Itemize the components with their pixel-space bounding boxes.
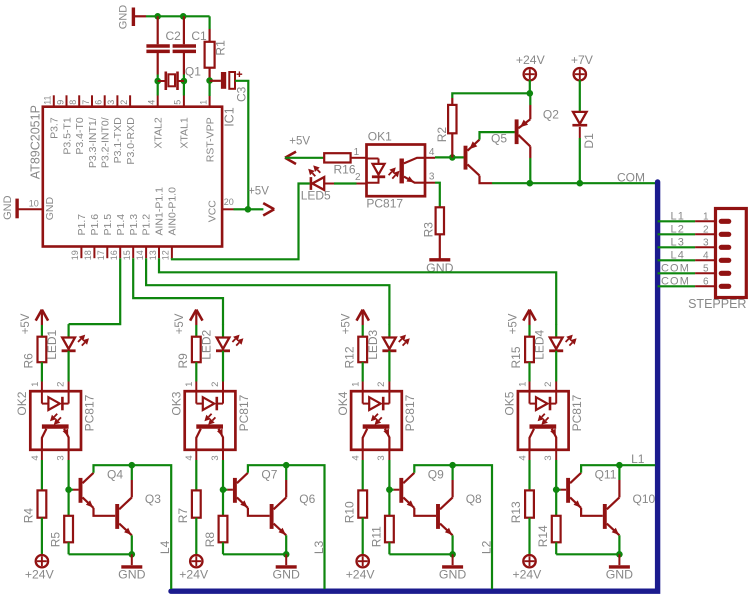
svg-text:+5V: +5V — [341, 313, 353, 334]
svg-text:+24V: +24V — [25, 568, 55, 582]
wire OK1 pin4 to Q5 base — [425, 157, 435, 159]
svg-text:OK2: OK2 — [15, 391, 29, 415]
svg-text:RST-VPP: RST-VPP — [204, 117, 216, 162]
supply +24V (R13) — [523, 555, 535, 567]
svg-text:+5V: +5V — [20, 313, 32, 334]
wire bus to STEPPER pin 3 (L3) — [658, 246, 696, 248]
connector pin 2 — [695, 233, 715, 235]
resistor R14 — [552, 516, 561, 543]
svg-text:LED1: LED1 — [45, 329, 59, 359]
wire OK4 pin4 to R10 — [362, 450, 364, 460]
node junction R2/Q5 base — [449, 154, 456, 161]
OK2 internal LED — [41, 391, 43, 403]
transistor Q3 (NPN) — [115, 504, 119, 529]
optocoupler OK1 PC817 box — [367, 145, 426, 197]
svg-text:1: 1 — [184, 382, 195, 387]
pin 11 stub (top) — [53, 95, 55, 106]
node junction Q2 collector on COM — [527, 180, 534, 187]
supply +5V arrow (R9) — [190, 310, 196, 321]
svg-text:R12: R12 — [342, 346, 356, 368]
svg-text:OK1: OK1 — [368, 129, 392, 143]
OK2 internal phototransistor — [42, 424, 69, 428]
node junction Q11 base — [553, 486, 560, 493]
wire OK4 pin3 to R11 and Q9 base — [388, 450, 390, 460]
svg-text:4: 4 — [429, 147, 435, 158]
svg-text:3: 3 — [210, 455, 221, 460]
OK5 internal LED — [529, 391, 531, 403]
svg-text:3: 3 — [55, 455, 66, 460]
resistor R10 — [358, 490, 367, 517]
resistor R12 — [358, 337, 367, 363]
resistor R5 — [64, 516, 73, 543]
optocoupler OK4 PC817 box — [351, 391, 402, 450]
optocoupler OK3 PC817 box — [185, 391, 236, 450]
OK4 internal LED — [362, 391, 364, 403]
svg-text:+5V: +5V — [174, 313, 186, 334]
svg-text:XTAL2: XTAL2 — [153, 117, 165, 148]
svg-text:6: 6 — [703, 276, 709, 287]
svg-text:14: 14 — [135, 250, 145, 260]
svg-text:R1: R1 — [214, 40, 228, 56]
svg-text:3: 3 — [543, 455, 554, 460]
svg-text:P1.5: P1.5 — [102, 214, 114, 236]
wire Q3 emitter to GND — [131, 535, 133, 554]
wire OK3 pin3 to R8 and Q7 base — [222, 450, 224, 460]
node junction C1 top — [180, 13, 187, 20]
svg-text:Q4: Q4 — [107, 468, 123, 482]
supply +5V arrow (VCC) — [248, 208, 264, 210]
wire Q7 collector to output junction — [248, 465, 286, 473]
svg-text:R16: R16 — [334, 162, 356, 176]
resistor R2 — [451, 133, 453, 157]
svg-text:Q6: Q6 — [299, 492, 315, 506]
svg-text:AT89C2051P: AT89C2051P — [29, 105, 43, 179]
pin 14 stub (bottom) — [145, 247, 147, 259]
wire OK5 pin3 to R14 and Q11 base — [555, 450, 557, 460]
optocoupler OK2 PC817 box — [30, 391, 81, 450]
wire Q11 collector to output junction — [581, 465, 619, 473]
pin 19 stub (bottom) — [80, 247, 82, 259]
node junction emitter/GND — [129, 551, 136, 558]
svg-text:R4: R4 — [22, 508, 36, 524]
wire AIN1 pin13 to LED4 — [159, 258, 556, 324]
svg-text:GND: GND — [44, 197, 56, 221]
wire Q4 emitter to Q3 base — [94, 508, 116, 516]
pin 10 GND stub (left) — [18, 208, 43, 210]
svg-text:R8: R8 — [203, 532, 217, 548]
svg-text:P1.4: P1.4 — [115, 214, 127, 236]
svg-text:P3.7: P3.7 — [49, 117, 61, 139]
svg-text:LED2: LED2 — [199, 329, 213, 359]
svg-text:4: 4 — [30, 455, 41, 460]
OK5 light arrows — [542, 414, 545, 417]
svg-text:1: 1 — [30, 382, 41, 387]
wire RST pin1 — [209, 81, 211, 96]
diode D1 — [579, 80, 581, 112]
node junction output L1 — [616, 462, 623, 469]
transistor Q10 (NPN) — [603, 504, 607, 529]
node junction output L3 — [283, 462, 290, 469]
svg-text:Q5: Q5 — [491, 132, 507, 146]
svg-text:12: 12 — [161, 250, 171, 260]
LED LED1 — [67, 324, 69, 337]
svg-text:19: 19 — [70, 250, 80, 260]
svg-text:PC817: PC817 — [570, 394, 584, 431]
OK3 internal LED — [195, 391, 197, 403]
svg-text:PC817: PC817 — [366, 197, 403, 211]
svg-text:5: 5 — [703, 263, 709, 274]
wire OK5 pin4 to R13 — [529, 450, 531, 460]
svg-text:2: 2 — [355, 172, 361, 183]
pin 8 stub (top) — [78, 95, 80, 106]
connector pin 4 — [695, 259, 715, 261]
wire R5 to GND rail — [69, 553, 132, 555]
resistor R7 — [192, 490, 201, 517]
wire AIN0 pin12 to LED5 — [171, 258, 173, 259]
resistor R3 — [436, 207, 444, 234]
wire net L1 to bus — [619, 464, 655, 466]
svg-text:1: 1 — [517, 382, 528, 387]
LED LED4 — [555, 324, 557, 337]
svg-text:4: 4 — [351, 455, 362, 460]
node junction emitter/GND — [449, 551, 456, 558]
svg-text:PC817: PC817 — [237, 394, 251, 431]
svg-text:COM: COM — [661, 276, 690, 288]
svg-text:R15: R15 — [509, 346, 523, 368]
svg-text:Q1: Q1 — [185, 65, 201, 79]
transistor Q2 (PNP) — [515, 119, 519, 144]
wire Q6 emitter to GND — [285, 535, 287, 554]
svg-text:PC817: PC817 — [82, 394, 96, 431]
wire Q5 emitter to Q2 base — [480, 132, 515, 140]
svg-text:+24V: +24V — [346, 568, 376, 582]
svg-text:15: 15 — [122, 250, 132, 260]
svg-text:C2: C2 — [166, 29, 182, 43]
ground GND (Q6) — [276, 565, 297, 568]
OK1 internal phototransistor — [400, 159, 404, 184]
wire net L4 to bus — [132, 465, 171, 589]
svg-text:P1.6: P1.6 — [89, 214, 101, 236]
supply +5V arrow (OK1 input) — [285, 152, 296, 158]
wire OK2 pin3 to R5 and Q4 base — [68, 450, 70, 460]
wire bus to STEPPER pin 5 (COM) — [658, 272, 696, 274]
node junction emitter/GND — [616, 551, 623, 558]
wire COM net — [529, 182, 656, 184]
svg-text:R10: R10 — [342, 501, 356, 523]
wire R2 top to +24V rail — [452, 93, 530, 98]
svg-text:4: 4 — [184, 455, 195, 460]
svg-text:1: 1 — [703, 211, 709, 222]
connector pin 6 — [695, 285, 715, 287]
svg-text:L4: L4 — [671, 250, 685, 262]
LED LED5 — [310, 177, 313, 190]
wire Q7 emitter to Q6 base — [248, 508, 270, 516]
svg-text:Q9: Q9 — [428, 468, 444, 482]
svg-text:LED4: LED4 — [533, 329, 547, 359]
svg-text:P3.4-T0: P3.4-T0 — [74, 117, 86, 155]
svg-text:Q2: Q2 — [543, 108, 559, 122]
pin 2 stub (top) — [129, 95, 131, 106]
OK2 light arrows — [54, 414, 57, 417]
svg-text:R13: R13 — [509, 501, 523, 523]
resistor R16 — [324, 153, 350, 162]
svg-text:Q10: Q10 — [633, 492, 656, 506]
wire P1.3 pin15 to LED2 — [133, 258, 223, 324]
svg-text:R3: R3 — [421, 222, 435, 238]
svg-text:7: 7 — [81, 100, 91, 105]
supply +24V (Q2) — [524, 68, 536, 80]
node junction Q4 base — [65, 486, 72, 493]
connector STEPPER box — [716, 209, 747, 298]
transistor Q8 (NPN) — [436, 504, 440, 529]
resistor R13 — [525, 490, 534, 517]
svg-text:GND: GND — [606, 568, 633, 582]
node junction output L4 — [129, 462, 136, 469]
ground GND (top left) — [132, 8, 135, 27]
connector pin 5 — [695, 272, 715, 274]
capacitor C3 (electrolytic) — [210, 80, 221, 82]
svg-text:L3: L3 — [312, 540, 326, 554]
svg-text:17: 17 — [96, 250, 106, 260]
svg-text:3: 3 — [429, 171, 435, 182]
pin 3 stub (top) — [116, 95, 118, 106]
LED LED3 — [388, 324, 390, 337]
pin 6 stub (top) — [104, 95, 106, 106]
transistor Q9 (NPN) — [389, 489, 393, 491]
svg-text:PC817: PC817 — [403, 394, 417, 431]
supply +5V arrow (R6) — [36, 310, 42, 321]
svg-text:1: 1 — [354, 147, 360, 158]
ground GND (Q8) — [442, 565, 463, 568]
svg-text:4: 4 — [703, 250, 709, 261]
pin 1 stub RST — [209, 96, 211, 107]
svg-text:20: 20 — [224, 197, 234, 207]
supply +24V (R10) — [357, 555, 369, 567]
node junction R1 bottom / RST — [206, 77, 213, 84]
svg-text:R14: R14 — [536, 525, 550, 547]
supply +5V arrow (R12) — [357, 310, 363, 321]
svg-text:P3.3-INT1/: P3.3-INT1/ — [87, 117, 99, 168]
wire R8 to GND rail — [223, 553, 286, 555]
resistor R1 — [209, 16, 211, 29]
wire Q4 collector to output junction — [94, 465, 132, 473]
wire bus to STEPPER pin 4 (L4) — [658, 259, 696, 261]
svg-text:2: 2 — [543, 382, 554, 387]
svg-text:R7: R7 — [176, 508, 190, 524]
svg-text:P3.0-RXD: P3.0-RXD — [125, 117, 137, 165]
svg-text:8: 8 — [68, 100, 78, 105]
svg-text:AIN0-P1.0: AIN0-P1.0 — [167, 187, 179, 236]
wire Q10 emitter to GND — [618, 535, 620, 554]
supply +7V — [574, 68, 586, 80]
svg-text:OK3: OK3 — [169, 391, 183, 415]
transistor Q7 (NPN) — [223, 489, 227, 491]
transistor Q4 (NPN) — [69, 489, 73, 491]
svg-text:P3.1-TXD: P3.1-TXD — [112, 117, 124, 164]
svg-text:4: 4 — [147, 100, 157, 105]
svg-text:R9: R9 — [176, 353, 190, 369]
svg-text:+5V: +5V — [507, 313, 519, 334]
svg-text:3: 3 — [376, 455, 387, 460]
svg-text:R6: R6 — [22, 353, 36, 369]
wire OK2 pin4 to R4 — [41, 450, 43, 460]
ground GND (pin10) — [15, 199, 18, 219]
transistor Q6 (NPN) — [270, 504, 274, 529]
pin 9 stub (top) — [66, 95, 68, 106]
wire Q11 emitter to Q10 base — [581, 508, 603, 516]
wire Q10 collector — [618, 480, 620, 497]
wire Q5 collector to COM — [480, 176, 493, 184]
wire Q9 emitter to Q8 base — [414, 508, 436, 516]
svg-text:C3: C3 — [234, 86, 248, 102]
svg-text:GND: GND — [439, 568, 466, 582]
svg-text:6: 6 — [94, 100, 104, 105]
svg-text:GND: GND — [2, 195, 14, 220]
node junction D1 on COM — [577, 180, 584, 187]
OK4 light arrows — [375, 414, 378, 417]
ground GND (Q10) — [609, 565, 630, 568]
svg-text:+24V: +24V — [513, 568, 543, 582]
OK1 internal LED — [367, 158, 379, 160]
wire OK1 pin3 to R3 — [425, 182, 435, 184]
svg-text:2: 2 — [376, 382, 387, 387]
wire Q9 collector to output junction — [414, 465, 452, 473]
svg-text:16: 16 — [109, 250, 119, 260]
svg-text:Q3: Q3 — [145, 492, 161, 506]
svg-text:COM: COM — [617, 170, 645, 184]
node junction +24V / Q2 emitter — [527, 90, 534, 97]
svg-text:STEPPER: STEPPER — [688, 297, 746, 311]
svg-text:4: 4 — [517, 455, 528, 460]
pin 4 stub XTAL2 — [157, 96, 159, 107]
wire R14 to GND rail — [556, 553, 619, 555]
transistor Q11 (NPN) — [556, 489, 560, 491]
svg-text:9: 9 — [55, 100, 65, 105]
supply +24V (R4) — [36, 555, 48, 567]
svg-text:13: 13 — [148, 250, 158, 260]
capacitor C1 — [183, 16, 185, 44]
svg-text:1: 1 — [198, 100, 208, 105]
pin 17 stub (bottom) — [106, 247, 108, 259]
svg-text:R11: R11 — [369, 526, 383, 547]
svg-text:+24V: +24V — [179, 568, 209, 582]
bus B$1 (navy) — [171, 182, 658, 591]
resistor R9 — [192, 337, 201, 363]
svg-text:3: 3 — [106, 100, 116, 105]
wire GND to C2 C1 R1 top — [146, 15, 210, 17]
svg-text:3: 3 — [703, 237, 709, 248]
svg-text:2: 2 — [55, 382, 66, 387]
LED LED2 — [222, 324, 224, 337]
ground GND (Q3) — [121, 565, 142, 568]
svg-text:R2: R2 — [435, 127, 449, 143]
svg-text:XTAL1: XTAL1 — [179, 117, 191, 148]
svg-text:LED3: LED3 — [366, 329, 380, 359]
svg-text:2: 2 — [703, 224, 709, 235]
wire Q8 emitter to GND — [452, 535, 454, 554]
OK3 internal phototransistor — [196, 424, 223, 428]
svg-text:10: 10 — [29, 199, 39, 209]
resistor R15 — [525, 337, 534, 363]
OK1 light arrows — [389, 172, 392, 175]
svg-text:Q7: Q7 — [261, 468, 277, 482]
svg-text:P3.5-T1: P3.5-T1 — [61, 117, 73, 155]
wire net L2 to bus — [453, 465, 492, 589]
wire Q6 collector — [285, 480, 287, 497]
wire Q8 collector — [452, 480, 454, 497]
svg-text:Q8: Q8 — [466, 492, 482, 506]
resistor R6 — [38, 337, 47, 363]
OK5 internal phototransistor — [530, 424, 557, 428]
wire C3 to VCC +5V — [235, 81, 248, 210]
pin 12 stub (bottom) — [171, 247, 173, 259]
wire OK3 pin4 to R7 — [195, 450, 197, 460]
supply +24V (R7) — [190, 555, 202, 567]
svg-text:P3.2-INT0/: P3.2-INT0/ — [100, 117, 112, 168]
svg-text:D1: D1 — [582, 133, 596, 149]
connector pin 1 — [695, 220, 715, 222]
crystal Q1 — [154, 78, 161, 85]
svg-text:L2: L2 — [480, 540, 494, 554]
svg-text:LED5: LED5 — [301, 188, 331, 202]
svg-text:GND: GND — [273, 568, 300, 582]
svg-text:IC1: IC1 — [223, 107, 237, 127]
pin 5 stub XTAL1 — [183, 96, 185, 107]
wire bus to STEPPER pin 2 (L2) — [658, 233, 696, 235]
wire bus to STEPPER pin 6 (COM) — [658, 285, 696, 287]
svg-text:VCC: VCC — [207, 200, 219, 223]
wire bus to STEPPER pin 1 (L1) — [658, 220, 696, 222]
svg-text:R5: R5 — [49, 532, 63, 548]
svg-text:5: 5 — [173, 100, 183, 105]
wire net L3 to bus — [286, 465, 324, 589]
svg-text:+5V: +5V — [289, 135, 310, 147]
svg-text:OK4: OK4 — [336, 391, 350, 415]
capacitor C2 — [157, 16, 159, 44]
svg-text:L1: L1 — [631, 452, 645, 466]
svg-text:+7V: +7V — [571, 53, 594, 67]
OK3 light arrows — [209, 414, 212, 417]
wire Q3 collector — [131, 480, 133, 497]
ground GND (R3) — [429, 258, 450, 261]
node junction Q7 base — [220, 486, 227, 493]
resistor R11 — [385, 516, 394, 543]
svg-text:18: 18 — [83, 250, 93, 260]
svg-text:P1.3: P1.3 — [128, 214, 140, 236]
svg-text:GND: GND — [118, 568, 145, 582]
svg-text:L2: L2 — [671, 224, 685, 236]
svg-text:L4: L4 — [158, 540, 172, 554]
svg-text:11: 11 — [43, 95, 53, 104]
pin 16 stub (bottom) — [119, 247, 121, 259]
svg-text:P1.2: P1.2 — [141, 214, 153, 236]
connector pin 3 — [695, 246, 715, 248]
resistor R4 — [38, 490, 47, 517]
svg-text:2: 2 — [119, 100, 129, 105]
pin 18 stub (bottom) — [93, 247, 95, 259]
pin 15 stub (bottom) — [132, 247, 134, 259]
node junction Q9 base — [386, 486, 393, 493]
svg-text:AIN1-P1.1: AIN1-P1.1 — [154, 187, 166, 236]
svg-text:L3: L3 — [671, 237, 685, 249]
svg-text:COM: COM — [661, 263, 690, 275]
pin 13 stub (bottom) — [158, 247, 160, 259]
svg-text:P1.7: P1.7 — [76, 214, 88, 236]
svg-text:+5V: +5V — [248, 185, 269, 197]
node junction VCC pin20 — [245, 206, 252, 213]
svg-text:GND: GND — [118, 5, 130, 30]
OK4 internal phototransistor — [363, 424, 390, 428]
